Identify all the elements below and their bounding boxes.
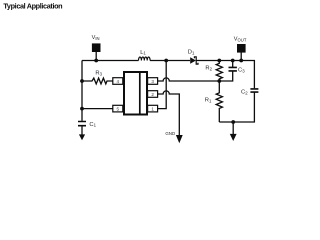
capacitor C2 xyxy=(219,93,254,123)
wire: top rail left segment VIN to L1 xyxy=(82,60,139,62)
terminal square VIN xyxy=(92,43,101,52)
wire: SW vertical from top rail xyxy=(158,61,167,109)
resistor R3 xyxy=(82,78,113,84)
ground arrowhead below C1 xyxy=(79,134,85,140)
svg-text:R1: R1 xyxy=(205,98,212,104)
ground arrowhead GND pin2 xyxy=(176,135,183,143)
wire: FB wire pin3 with hop over SW vertical xyxy=(158,78,220,81)
svg-text:C2: C2 xyxy=(241,90,248,96)
node dot FB xyxy=(217,79,221,83)
svg-text:L1: L1 xyxy=(140,50,146,56)
pin 2 xyxy=(148,91,158,98)
op-amp U1 IC body xyxy=(124,72,147,115)
node dot ground junction xyxy=(231,120,235,124)
node dot R3 left xyxy=(80,79,84,83)
wire: ground stub below output cap node xyxy=(232,122,234,134)
svg-text:VOUT: VOUT xyxy=(234,37,247,43)
ground arrowhead output node xyxy=(230,134,237,141)
diode D1 xyxy=(190,57,196,63)
node dot SW junction xyxy=(164,59,168,63)
inductor L1 xyxy=(139,57,151,60)
svg-text:C1: C1 xyxy=(89,122,96,128)
wire: VIN stub xyxy=(95,52,97,61)
node dot VIN junction xyxy=(94,59,98,63)
node dot C3 top xyxy=(231,59,235,63)
pin 1 xyxy=(148,105,158,112)
wire: pin5 to C1 node xyxy=(82,108,113,110)
wire: VOUT stub xyxy=(240,52,242,61)
pin 5 xyxy=(113,105,123,112)
node dot VOUT junction xyxy=(239,59,243,63)
svg-text:1: 1 xyxy=(151,107,154,112)
svg-text:Typical Application: Typical Application xyxy=(3,1,62,10)
resistor R1 xyxy=(216,81,222,122)
svg-text:3: 3 xyxy=(151,79,154,84)
wire: top rail L1 to D1 xyxy=(150,60,190,62)
pin 4 xyxy=(113,78,123,85)
svg-text:2: 2 xyxy=(151,92,154,97)
diode D1 schottky cathode bar xyxy=(194,57,198,64)
terminal square VOUT xyxy=(237,44,246,53)
wire: left vertical rail VIN column xyxy=(81,61,83,121)
capacitor C1 xyxy=(81,126,83,135)
svg-text:R3: R3 xyxy=(95,71,102,77)
node dot R2 top xyxy=(217,59,221,63)
resistor R2 xyxy=(216,61,222,82)
IC inner line xyxy=(139,71,141,114)
svg-text:C3: C3 xyxy=(238,68,245,74)
svg-text:VIN: VIN xyxy=(92,35,100,41)
node dot C1 junction xyxy=(80,107,84,111)
wire: pin2 GND wire with hop over SW vertical xyxy=(158,91,180,135)
wire: top rail D1 cathode to right corner, down right side to C2 xyxy=(196,61,254,89)
svg-text:GND: GND xyxy=(165,131,175,136)
pin 3 xyxy=(148,78,158,85)
svg-text:D1: D1 xyxy=(188,50,195,56)
svg-text:R2: R2 xyxy=(205,66,212,72)
svg-text:5: 5 xyxy=(117,107,120,112)
svg-text:4: 4 xyxy=(117,79,120,84)
capacitor C3 xyxy=(219,61,232,82)
